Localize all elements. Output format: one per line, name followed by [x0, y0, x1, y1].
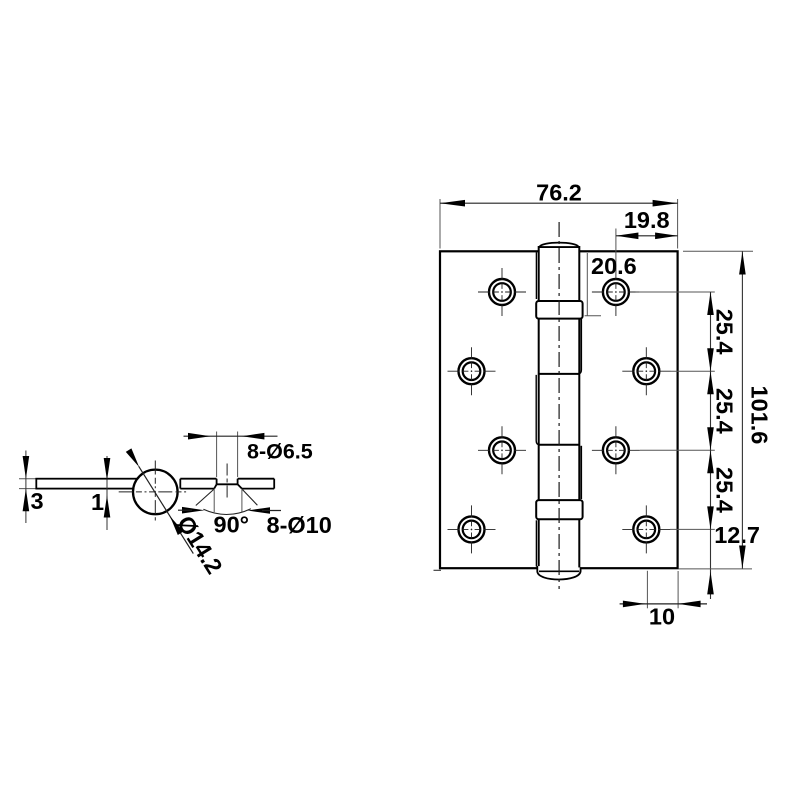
bearing ring B	[536, 500, 582, 519]
dimension 8-dia6.5 extension line right	[237, 432, 239, 478]
hole row3 right	[592, 426, 640, 474]
25.4 extension line row1	[640, 291, 715, 293]
hinge pin centerline	[558, 222, 560, 589]
dimension 76.2 line	[440, 202, 678, 204]
dimension 19.8 left arrow	[616, 233, 639, 240]
dimension 19.8 right arrow	[655, 233, 678, 240]
25.4 extension line row3	[640, 449, 715, 451]
dimension 10 line	[620, 603, 707, 605]
90 degree left arrow tail	[178, 509, 192, 511]
dimension 76.2 extension line left	[439, 199, 441, 249]
dimension 101.6 bottom arrow	[739, 546, 746, 569]
svg-text:12.7: 12.7	[714, 522, 760, 548]
25.4 extension line row2	[670, 370, 715, 372]
svg-text:76.2: 76.2	[536, 180, 582, 206]
25.4 arrows row3 bowtie	[707, 427, 714, 450]
knuckle circle vertical centerline	[154, 461, 156, 521]
dimension 1 lower arrow	[104, 495, 111, 517]
hinge leaf bar right segment with countersunk hole (section)	[180, 479, 274, 489]
svg-text:25.4: 25.4	[712, 309, 738, 355]
dimension 101.6 top arrow	[739, 252, 746, 275]
wire: extension line bottom of 3 dim	[19, 488, 37, 490]
hole vertical centerline	[226, 464, 228, 501]
svg-text:8-Ø10: 8-Ø10	[267, 512, 332, 538]
dimension 20.6 bottom tick	[585, 315, 601, 317]
dimension 8-dia6.5 left arrow	[188, 433, 211, 440]
25.4 arrows row4 bowtie	[707, 506, 714, 529]
svg-text:20.6: 20.6	[591, 253, 637, 279]
knuckle bottom dome	[537, 566, 580, 580]
knuckle division line lower	[539, 444, 580, 446]
dia 14.2 upper-left arrow	[126, 448, 139, 467]
svg-text:1: 1	[91, 489, 104, 515]
90 degree left arrow	[182, 507, 205, 514]
hole row2 left	[448, 347, 496, 395]
dia10 extension line right	[241, 489, 243, 512]
hinge leaf bar left segment	[36, 479, 139, 489]
bar right segment left cap	[179, 479, 181, 489]
bar right segment bottom edge	[180, 488, 274, 490]
25.4 text 1 (rotated)	[712, 309, 738, 355]
hole row3 left	[478, 426, 526, 474]
svg-text:101.6: 101.6	[747, 385, 773, 444]
25.4 arrows row2 bowtie	[707, 348, 714, 371]
hole row4 right	[622, 505, 670, 553]
svg-text:3: 3	[31, 488, 44, 514]
dia 14.2 lower-right arrow	[170, 516, 183, 535]
countersunk hole walls	[217, 479, 238, 485]
dimension 10 extension line right	[677, 571, 679, 608]
knuckle circle horizontal centerline	[119, 491, 188, 493]
stray tick left of plate bottom-left corner	[434, 569, 442, 571]
dimension 10 left arrow	[623, 601, 646, 608]
dimension 76.2 extension line right	[677, 199, 679, 249]
dimension 3 lower arrow	[23, 489, 30, 512]
90 degree right arrow	[248, 507, 271, 514]
wire: extension line top of 3 dim	[19, 478, 37, 480]
bearing ring A	[536, 301, 582, 319]
knuckle top dome	[539, 243, 578, 247]
knuckle bottom cap base line	[539, 570, 579, 572]
screw holes	[448, 268, 671, 553]
svg-text:19.8: 19.8	[624, 207, 670, 233]
svg-text:25.4: 25.4	[712, 388, 738, 434]
hole row1 right	[592, 268, 640, 316]
25.4 arrow row1 down	[707, 292, 714, 315]
hole row4 left	[448, 505, 496, 553]
knuckle seam line section2 right	[577, 319, 581, 374]
dia 14.2 text (rotated)	[172, 511, 228, 578]
knuckle seam line section4 right	[580, 446, 582, 499]
knuckle barrel	[539, 247, 580, 571]
svg-text:90°: 90°	[214, 512, 250, 538]
knuckle seam line section5 left	[535, 520, 537, 566]
svg-text:25.4: 25.4	[712, 467, 738, 513]
dimension 19.8 extension line left	[615, 229, 617, 274]
dimension 76.2 right arrow	[653, 200, 678, 207]
dia10 extension line left	[213, 489, 215, 512]
90 degree right arrow tail	[262, 510, 281, 512]
dimension 8-dia6.5 right arrow	[242, 433, 265, 440]
25.4 dimension column line	[710, 292, 712, 599]
bar right segment top edge	[180, 478, 274, 480]
knuckle division line upper	[539, 373, 580, 375]
dimension 101.6 line	[741, 251, 743, 568]
svg-text:10: 10	[649, 604, 675, 630]
25.4 extension line row4	[670, 528, 715, 530]
25.4 text 2 (rotated)	[712, 388, 738, 434]
dimension 76.2 left arrow	[440, 200, 465, 207]
knuckle seam line section3 left	[536, 375, 540, 445]
knuckle circle (pin cross-section)	[133, 470, 178, 515]
dimension 10 right arrow	[678, 601, 701, 608]
90 degree arc	[203, 509, 251, 515]
hole row2 right	[622, 347, 670, 395]
25.4 text 3 (rotated)	[712, 467, 738, 513]
countersink flare right	[238, 484, 242, 488]
dimension 1 line	[106, 456, 108, 530]
countersink flank extension right	[242, 489, 258, 505]
countersink flank extension left	[196, 489, 214, 506]
hinge plate outline	[440, 251, 678, 568]
countersink transition line	[217, 483, 238, 485]
leader line for dia 14.2	[139, 466, 194, 553]
dimension 101.6 top extension	[683, 250, 753, 252]
dimension 20.6 vertical line	[586, 253, 588, 316]
knuckle seam line section1 left	[535, 252, 537, 299]
dimension 3 upper arrow	[23, 456, 30, 479]
hole row1 left	[478, 268, 526, 316]
bar right segment right cap	[273, 479, 275, 489]
dimension 8-dia6.5 extension line left	[216, 432, 218, 478]
dimension 101.6 bottom extension	[679, 568, 753, 570]
dimension 8-dia6.5 line	[184, 435, 278, 437]
dimension 1 upper arrow	[104, 458, 111, 481]
dimension 10 extension line left	[646, 571, 648, 609]
12.7 lower arrow up	[707, 571, 714, 594]
dimension 101.6 text (rotated)	[747, 385, 773, 444]
dimension 19.8 line	[616, 235, 678, 237]
dimension 3 line	[25, 451, 27, 524]
svg-text:8-Ø6.5: 8-Ø6.5	[247, 440, 313, 464]
countersink flare left	[214, 484, 216, 488]
